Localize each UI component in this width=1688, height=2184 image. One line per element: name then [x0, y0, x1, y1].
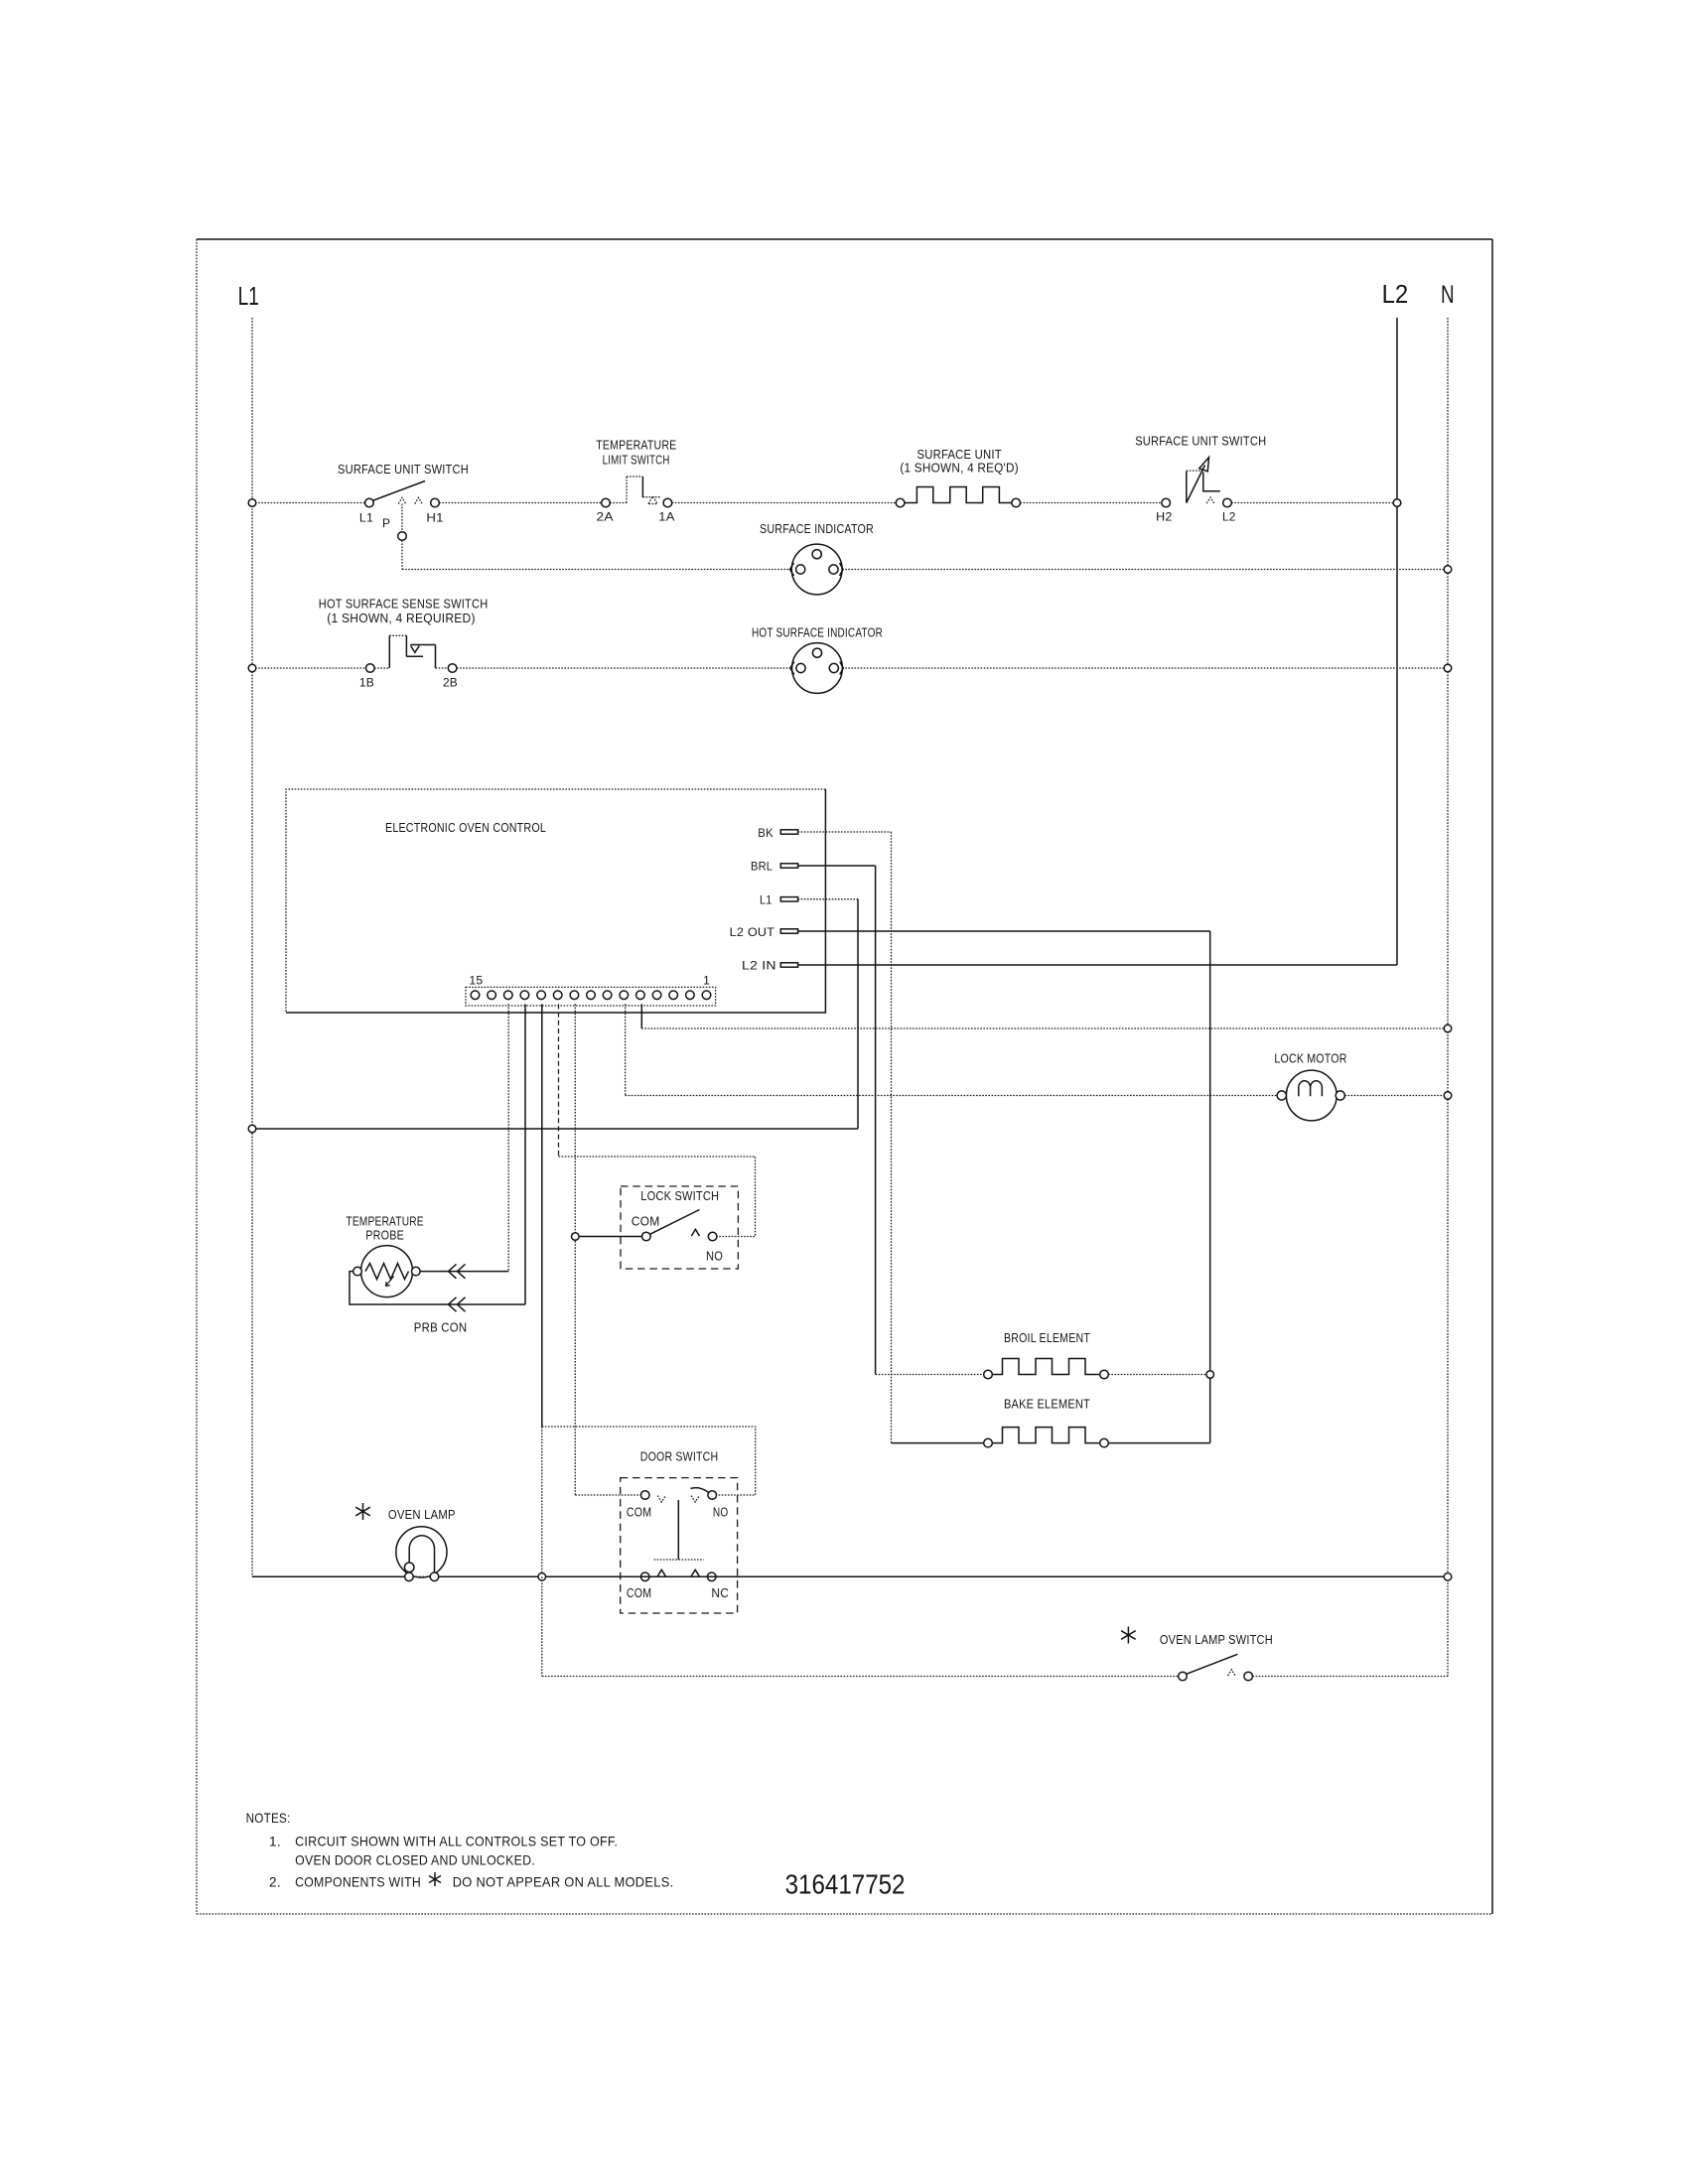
lock switch NO arrow [691, 1229, 699, 1236]
junction row3 on L1 bus [248, 664, 256, 672]
wire row2 to surface indicator [402, 569, 794, 571]
PRB CON chevrons upper [449, 1264, 466, 1278]
oven lamp DS1 envelope [396, 1527, 447, 1577]
lock motor M1 body [1286, 1070, 1336, 1121]
terminal H1 [431, 498, 440, 507]
wire bake element to L2OUT drop [1108, 1442, 1209, 1444]
wire pin5 route to lock switch NO [559, 1157, 756, 1237]
wire lamp row from L1 bus [252, 1575, 405, 1577]
oven lamp small circle [404, 1563, 414, 1572]
surface indicator lead ticks [790, 563, 794, 576]
lock switch S2 enclosure [621, 1186, 738, 1269]
surface unit switch SW1 terminal L1 [365, 498, 374, 507]
oven lamp switch blade [1187, 1654, 1238, 1674]
surface unit switch SW1 second arrow [415, 497, 422, 503]
svg-text:OVEN LAMP: OVEN LAMP [388, 1507, 456, 1522]
wire L1 bus [251, 318, 253, 1576]
surface unit right terminal [1012, 498, 1021, 507]
svg-text:LOCK SWITCH: LOCK SWITCH [640, 1188, 719, 1203]
lock motor terminals [1277, 1091, 1286, 1100]
wire L1 pin to drop [798, 898, 858, 900]
junction L1 feed on L1 bus [248, 1125, 256, 1133]
wire lock motor row left [626, 1095, 1278, 1097]
electronic oven control box U1 [286, 789, 825, 1013]
terminal 1B [366, 664, 375, 673]
wire BRL pin to drop [798, 865, 876, 867]
wire 1B to sense switch [374, 667, 389, 669]
wire lock motor row right [1344, 1095, 1448, 1097]
wire P circle to row2 [401, 540, 403, 569]
hot surface indicator lead ticks [790, 662, 794, 675]
wire pin6 to door switch COM [575, 1494, 640, 1496]
svg-text:15: 15 [469, 974, 483, 988]
svg-text:NC: NC [711, 1585, 729, 1600]
border frame left edge [196, 239, 198, 1914]
oven lamp switch right terminal [1244, 1672, 1253, 1681]
hot surface sense switch arrow [411, 646, 420, 653]
svg-text:COM: COM [627, 1585, 651, 1600]
svg-text:COM: COM [632, 1214, 660, 1229]
svg-text:PROBE: PROBE [365, 1228, 404, 1243]
wire lamp switch feed drop [541, 1576, 543, 1676]
svg-text:N: N [1441, 281, 1455, 309]
svg-text:NOTES:: NOTES: [246, 1811, 291, 1826]
door switch upper NO terminal [708, 1491, 717, 1500]
svg-text:2A: 2A [597, 510, 614, 524]
wire pin10 drop [625, 1004, 627, 1095]
pin L1 tab [780, 897, 797, 901]
temperature limit switch contact arrow [648, 496, 657, 504]
svg-text:L1: L1 [359, 511, 373, 525]
surface unit heating element [905, 487, 1012, 503]
oven lamp filament loop [409, 1536, 434, 1577]
svg-text:BAKE ELEMENT: BAKE ELEMENT [1004, 1397, 1090, 1412]
door switch plunger bar [654, 1559, 704, 1561]
door switch lower contact arrows [657, 1570, 665, 1575]
svg-text:2.: 2. [269, 1875, 281, 1890]
terminal 2A [602, 498, 611, 507]
wire BK pin to drop [798, 831, 892, 833]
svg-text:L2 OUT: L2 OUT [730, 925, 775, 939]
surface unit switch SW2 contact arrow [1206, 497, 1213, 503]
terminal strip P1 body [466, 987, 716, 1006]
svg-text:OVEN LAMP SWITCH: OVEN LAMP SWITCH [1160, 1632, 1273, 1647]
wire row1 surface unit to H2 [1021, 502, 1162, 504]
door switch lower COM terminal [640, 1572, 649, 1581]
junction row1 on L2 bus [1393, 499, 1401, 507]
wire row2 surface indicator to N [839, 569, 1448, 571]
wire lamp row between terminals [413, 1575, 430, 1577]
pin L2 OUT tab [780, 929, 797, 933]
door switch upper COM terminal [640, 1491, 649, 1500]
oven lamp terminals [405, 1572, 414, 1581]
surface indicator pins [796, 565, 805, 574]
svg-text:BRL: BRL [751, 860, 773, 874]
wire row1 2A to limit switch [610, 502, 627, 504]
border frame top edge [197, 238, 1492, 240]
junction broil row on L2OUT drop [1206, 1371, 1214, 1379]
wire broil element to L2OUT drop [1108, 1374, 1209, 1376]
broil element left terminal [984, 1370, 993, 1379]
wire lamp switch row left [542, 1676, 1179, 1678]
svg-text:P: P [382, 516, 390, 530]
pin BRL tab [780, 864, 797, 868]
wire L2 bus [1396, 318, 1398, 965]
svg-text:NO: NO [713, 1505, 729, 1520]
bake element R2 [992, 1428, 1099, 1443]
surface indicator lamp body [791, 544, 842, 595]
oven lamp switch arrow [1228, 1670, 1235, 1676]
junction lamp row on N bus [1444, 1573, 1452, 1581]
surface unit switch SW1 blade [372, 481, 425, 501]
svg-text:1: 1 [703, 974, 710, 988]
wire L2 OUT pin to drop [798, 930, 1210, 932]
svg-text:H1: H1 [426, 511, 443, 525]
svg-text:LIMIT SWITCH: LIMIT SWITCH [603, 453, 670, 468]
wire L1 pin vertical drop [857, 899, 859, 1129]
svg-text:1B: 1B [359, 676, 374, 690]
junction row1 on L1 bus [248, 499, 256, 507]
wire probe to PRB CON upper [420, 1271, 508, 1273]
door switch upper blade [691, 1488, 709, 1493]
hot surface indicator pins [796, 663, 805, 672]
svg-text:(1 SHOWN, 4 REQ'D): (1 SHOWN, 4 REQ'D) [900, 461, 1019, 476]
oven lamp switch left terminal [1179, 1672, 1188, 1681]
wire pin6 drop [574, 1004, 576, 1495]
svg-text:NO: NO [706, 1249, 723, 1264]
terminal L2 [1223, 498, 1232, 507]
junction row3 on N bus [1444, 664, 1452, 672]
wire row3 L1-junction to 1B [252, 667, 366, 669]
wire pin4 drop [541, 1004, 543, 1427]
wire probe return left [350, 1272, 525, 1304]
wire pin3 drop to probe return [524, 1004, 526, 1304]
wire L1 feed row [252, 1128, 858, 1130]
svg-text:2B: 2B [443, 676, 458, 690]
wire BRL to broil element [876, 1374, 984, 1376]
svg-text:TEMPERATURE: TEMPERATURE [346, 1214, 423, 1229]
broil element right terminal [1100, 1370, 1109, 1379]
svg-text:1.: 1. [269, 1835, 281, 1849]
lock switch COM terminal [642, 1232, 651, 1241]
wire BK to bake element [892, 1442, 984, 1444]
hot surface sense switch body [388, 635, 390, 668]
wire pin11 drop [640, 1004, 642, 1028]
wire pin2 drop to probe [507, 1004, 509, 1272]
junction lock motor row on N bus [1444, 1092, 1452, 1100]
svg-text:TEMPERATURE: TEMPERATURE [596, 438, 676, 453]
hot surface sense switch moving contact [410, 644, 435, 646]
wire P tap stem [401, 504, 403, 532]
wire sense switch to 2B [436, 667, 449, 669]
svg-text:SURFACE UNIT SWITCH: SURFACE UNIT SWITCH [1135, 434, 1266, 449]
surface unit left terminal [896, 498, 905, 507]
door switch S3 enclosure [621, 1478, 738, 1613]
temperature probe RT1 body [361, 1246, 413, 1297]
svg-text:1A: 1A [658, 510, 674, 524]
svg-text:HOT SURFACE SENSE SWITCH: HOT SURFACE SENSE SWITCH [319, 597, 489, 612]
svg-text:(1 SHOWN, 4 REQUIRED): (1 SHOWN, 4 REQUIRED) [327, 611, 475, 625]
terminal strip pin circles [471, 991, 711, 1000]
svg-text:OVEN DOOR CLOSED AND UNLOCKED.: OVEN DOOR CLOSED AND UNLOCKED. [295, 1853, 535, 1868]
wire BRL vertical drop [875, 866, 877, 1375]
junction row2 on N bus [1444, 566, 1452, 574]
wire lamp switch row to N corner [1253, 1676, 1449, 1678]
svg-text:SURFACE UNIT SWITCH: SURFACE UNIT SWITCH [338, 462, 469, 477]
svg-text:L2 IN: L2 IN [742, 959, 776, 973]
note 2 asterisk [429, 1872, 441, 1886]
svg-text:H2: H2 [1156, 510, 1173, 524]
broil element R1 [992, 1359, 1099, 1375]
svg-text:SURFACE INDICATOR: SURFACE INDICATOR [760, 521, 874, 536]
wire pin5 drop [558, 1004, 560, 1157]
door switch upper contact arrows [657, 1496, 665, 1502]
PRB CON chevrons lower [449, 1297, 466, 1311]
oven lamp asterisk [355, 1503, 370, 1520]
wire row1 L2 terminal to L2 bus [1231, 502, 1397, 504]
surface unit switch SW2 bracket [1186, 472, 1188, 503]
surface unit switch SW2 blade [1187, 466, 1205, 503]
svg-text:ELECTRONIC OVEN CONTROL: ELECTRONIC OVEN CONTROL [385, 820, 546, 835]
wire row1 H1 to 2A [439, 502, 601, 504]
svg-text:COMPONENTS WITH: COMPONENTS WITH [295, 1875, 421, 1890]
wire N bus [1447, 318, 1449, 1677]
surface unit switch SW2 L-piece [1203, 473, 1220, 491]
bake element left terminal [984, 1438, 993, 1447]
wire lamp row to N bus [439, 1575, 1448, 1577]
wire row3 2B to hot surface indicator [457, 667, 794, 669]
terminal 2B [448, 664, 457, 673]
border frame right edge [1491, 239, 1493, 1914]
svg-text:BK: BK [758, 826, 774, 840]
border frame bottom edge [197, 1913, 1492, 1915]
svg-text:PRB CON: PRB CON [414, 1320, 468, 1335]
wire L2 IN pin to L2 bus [798, 964, 1397, 966]
wire BK vertical drop [891, 832, 893, 1443]
temperature limit switch body [626, 477, 628, 503]
svg-text:HOT SURFACE INDICATOR: HOT SURFACE INDICATOR [752, 625, 883, 640]
svg-text:DOOR SWITCH: DOOR SWITCH [640, 1449, 719, 1464]
terminal P circle [398, 532, 407, 541]
svg-text:316417752: 316417752 [785, 1869, 906, 1900]
wire pin4 route over door switch [542, 1427, 756, 1495]
wire row1 1A to surface unit [672, 502, 897, 504]
junction lock switch COM on pin6 drop [572, 1233, 580, 1241]
junction lamp row and pin4 drop [538, 1573, 546, 1581]
svg-text:L1: L1 [238, 281, 259, 311]
terminal 1A [663, 498, 672, 507]
door switch plunger [677, 1500, 679, 1560]
lock switch blade [650, 1210, 700, 1235]
svg-text:L2: L2 [1222, 510, 1236, 524]
surface unit switch SW1 pilot arrow [398, 497, 405, 503]
door switch lower NC terminal [707, 1572, 716, 1581]
terminal H2 [1162, 498, 1171, 507]
hot surface indicator lamp body [792, 643, 843, 694]
surface unit switch SW2 arrowhead [1199, 458, 1209, 472]
wire junction to lock switch COM [579, 1236, 641, 1238]
temperature probe terminals [353, 1267, 362, 1276]
svg-text:L1: L1 [760, 893, 773, 907]
pin BK tab [780, 830, 797, 834]
oven lamp switch asterisk [1121, 1627, 1136, 1644]
temperature probe resistor zigzag [365, 1264, 409, 1280]
svg-text:DO NOT APPEAR ON ALL MODELS.: DO NOT APPEAR ON ALL MODELS. [453, 1875, 674, 1890]
svg-text:L2: L2 [1382, 279, 1409, 309]
lock motor winding m [1299, 1081, 1323, 1097]
wire row3 hot surface indicator to N [839, 667, 1448, 669]
temperature probe wiper arrow [386, 1277, 394, 1287]
pin L2 IN tab [780, 963, 797, 967]
wire row1 L1-junction to surface unit switch [252, 502, 365, 504]
wire L2 OUT vertical drop [1209, 931, 1211, 1443]
svg-text:CIRCUIT SHOWN WITH ALL CONTROL: CIRCUIT SHOWN WITH ALL CONTROLS SET TO O… [295, 1835, 618, 1849]
svg-text:BROIL ELEMENT: BROIL ELEMENT [1004, 1330, 1090, 1345]
junction pin11 row on N bus [1444, 1024, 1452, 1032]
lock switch NO terminal [708, 1232, 717, 1241]
wire pin11 row to N [641, 1027, 1448, 1029]
wire pin4 drop continues to lamp row [541, 1427, 543, 1576]
svg-text:LOCK MOTOR: LOCK MOTOR [1274, 1051, 1346, 1066]
bake element right terminal [1100, 1438, 1109, 1447]
svg-text:COM: COM [627, 1505, 651, 1520]
